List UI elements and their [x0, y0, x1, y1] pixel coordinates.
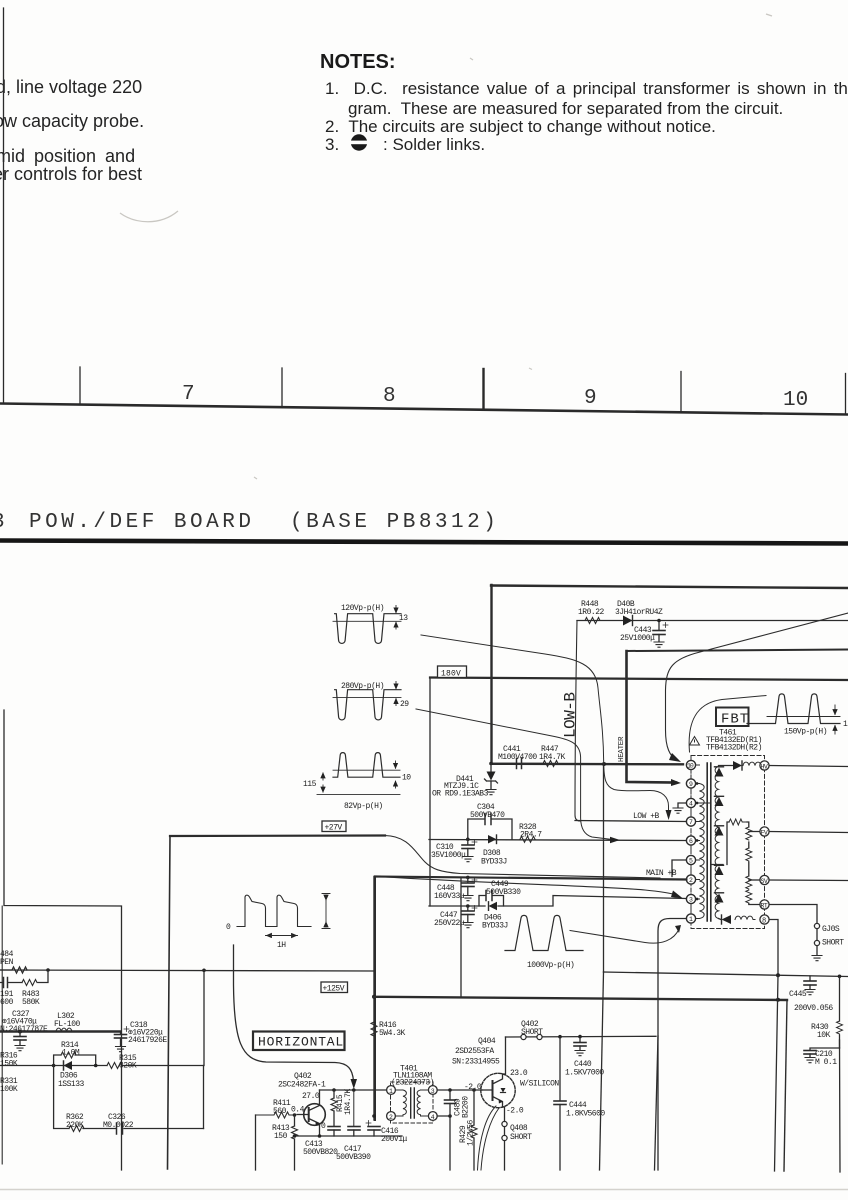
transformer T461 label: [706, 729, 762, 753]
svg-text:LOW-B: LOW-B: [562, 692, 580, 738]
svg-text:PEN: PEN: [0, 958, 14, 967]
wire: R411 left drop: [255, 1115, 257, 1170]
svg-text:1/2W56: 1/2W56: [467, 1119, 476, 1146]
wire: x778 drop: [775, 976, 779, 1172]
svg-text:2: 2: [389, 1114, 393, 1121]
waveform 82Vp-p: [303, 753, 411, 811]
junction collector: [332, 1088, 336, 1092]
svg-text:Q408: Q408: [510, 1124, 528, 1133]
svg-text:HEATER: HEATER: [618, 736, 626, 762]
resistor R362: [66, 1113, 84, 1132]
inductor L302: [54, 1012, 81, 1032]
svg-text:SV: SV: [761, 878, 768, 885]
svg-text:115: 115: [303, 780, 317, 789]
jumper GJ0S SHORT: [814, 923, 844, 955]
ground (C318): [116, 1047, 126, 1052]
wire: RT out to jumper: [769, 905, 817, 924]
ground (D441): [486, 790, 496, 795]
wire: rail right drop x787: [784, 1000, 787, 1171]
node +27V sweep curve: [170, 834, 385, 837]
transformer T461 primary winding: [696, 765, 705, 919]
svg-text:3: 3: [689, 897, 693, 904]
wire: vertical x204 lower: [203, 1066, 205, 1129]
capacitor C413: [303, 1127, 340, 1158]
node +125V label: [321, 982, 348, 994]
page left border line: [3, 8, 5, 403]
node SV terminal: [760, 875, 769, 885]
capacitor C327: [0, 1010, 48, 1045]
node terminal 8: [760, 915, 769, 926]
wire: collector row: [320, 1089, 387, 1091]
wire: left frame corner: [4, 710, 122, 1170]
wire: corner box to heater feed: [627, 650, 848, 652]
svg-text:5W4.3K: 5W4.3K: [379, 1029, 406, 1038]
resistor R429: [459, 1090, 477, 1170]
ground (C443): [654, 642, 664, 647]
svg-text:9: 9: [584, 387, 597, 410]
svg-text:SHORT: SHORT: [510, 1133, 532, 1142]
junction C310 node: [466, 838, 470, 842]
svg-text:+27V: +27V: [325, 824, 343, 833]
wire: jumper row Q402 SHORT: [506, 1035, 657, 1038]
svg-text:1.8KV5600: 1.8KV5600: [566, 1110, 605, 1119]
jumper Q408 SHORT: [502, 1121, 532, 1170]
svg-text:C445: C445: [789, 990, 807, 999]
junction C447: [466, 904, 470, 908]
svg-text:7: 7: [689, 819, 693, 826]
wire: top box top edge: [491, 586, 848, 589]
svg-text:8: 8: [762, 918, 766, 926]
wire: T401 pin4 out: [437, 1116, 450, 1170]
wire: Q404 collector up: [503, 1037, 506, 1074]
junction base node: [448, 1088, 452, 1092]
svg-text:RT: RT: [761, 903, 768, 910]
svg-text:35V1000μ: 35V1000μ: [431, 851, 466, 860]
svg-text:820K: 820K: [119, 1062, 137, 1071]
capacitor C210: [804, 1048, 840, 1067]
capacitor C304 bypass loop: [468, 803, 512, 839]
svg-text:3JH41orRU4Z: 3JH41orRU4Z: [615, 608, 663, 617]
svg-text:BYD33J: BYD33J: [482, 922, 508, 931]
capacitor C440: [565, 1037, 604, 1078]
svg-text:(23224373): (23224373): [391, 1079, 434, 1088]
svg-text:3: 3: [431, 1088, 435, 1095]
svg-text:25V1000μ: 25V1000μ: [620, 634, 655, 643]
svg-text:600: 600: [0, 998, 14, 1007]
svg-text:250V22μ: 250V22μ: [434, 919, 465, 928]
ground (C210): [805, 1058, 815, 1063]
node pin1 pointer curve: [570, 929, 679, 943]
ground (C445): [805, 990, 815, 995]
wire: SV connect: [749, 879, 760, 881]
svg-text:W/SILICON: W/SILICON: [520, 1080, 559, 1089]
node arrow into pin 9: [671, 779, 681, 786]
inductor HV branch coil: [743, 762, 761, 765]
svg-text:0: 0: [321, 1122, 326, 1131]
transistor Q404: [452, 1037, 559, 1116]
wire: +125V rail: [374, 997, 787, 1000]
svg-text:10: 10: [783, 389, 808, 412]
resistor R316 label: [0, 1052, 18, 1069]
node pointer from waveform 280Vp-p: [416, 709, 610, 839]
node pointer from waveform 120Vp-p: [421, 635, 669, 812]
svg-text:200V0.056: 200V0.056: [794, 1004, 833, 1013]
pin numbers: [687, 763, 694, 924]
wire: pin 8 to bottom bus: [769, 920, 778, 976]
svg-text:500VB390: 500VB390: [336, 1153, 371, 1162]
svg-text:100K: 100K: [0, 1085, 18, 1094]
wire: vertical from heater junction to bottom: [603, 764, 605, 972]
junction primary stubs: [696, 803, 711, 899]
svg-text:+125V: +125V: [323, 985, 345, 994]
wire: heavy drop to pin 9: [627, 651, 677, 783]
svg-text:150Vp-p(H): 150Vp-p(H): [784, 728, 827, 737]
svg-text:N:24617787E: N:24617787E: [0, 1025, 48, 1034]
svg-text:27.0: 27.0: [302, 1092, 320, 1101]
node FV terminal: [760, 827, 769, 837]
junction C448: [466, 876, 470, 880]
wire: 180V rail left drop: [429, 678, 431, 907]
capacitor C489: [445, 1090, 471, 1118]
junction heater line: [602, 762, 606, 766]
wire: emitter row: [295, 1135, 403, 1137]
svg-text:8: 8: [383, 385, 396, 408]
resistor FV branch: [729, 819, 747, 825]
wire: 180V rail: [430, 678, 848, 681]
wire: pin 4 ground stub: [678, 803, 686, 808]
wire: lower box top edge: [374, 877, 376, 1121]
junction rail x778: [776, 998, 780, 1002]
svg-text:HORIZONTAL: HORIZONTAL: [258, 1035, 344, 1050]
wire: long sweep from top right to pin 10: [666, 613, 848, 760]
svg-text:B2200: B2200: [462, 1096, 471, 1118]
note 3: [325, 135, 339, 155]
wire: T401 to Q404 base: [437, 1089, 482, 1091]
transformer T461 core: [707, 763, 711, 921]
svg-text:3: 3: [0, 511, 5, 534]
left border bottom segment: [1, 906, 3, 1164]
wire: C327 rail: [0, 1030, 121, 1033]
wire: R315 row: [0, 1065, 204, 1067]
resistor R415: [331, 1088, 353, 1126]
svg-text:1.5KV7000: 1.5KV7000: [565, 1069, 604, 1078]
wire: right edge vertical: [839, 1040, 842, 1172]
capacitor C417: [336, 1090, 371, 1162]
FBT label box: [716, 708, 749, 728]
waveform 120Vp-p: [333, 604, 408, 643]
svg-text:10K: 10K: [817, 1031, 831, 1040]
diode secondary D4: [715, 866, 724, 875]
resistor R413: [272, 1115, 298, 1170]
resistor R447: [539, 745, 604, 767]
svg-text:82Vp-p(H): 82Vp-p(H): [344, 802, 383, 811]
svg-text:150: 150: [274, 1132, 288, 1141]
diode D441 zener: [432, 764, 498, 799]
junction bus dots: [46, 968, 50, 972]
ground (C327): [15, 1046, 25, 1051]
inductor pin8 coil: [735, 916, 755, 919]
ruler line: [0, 404, 848, 415]
ruler tick 4: [680, 372, 682, 412]
wire: vertical x234 sweep to T401 arrow: [234, 945, 354, 1081]
svg-text:6: 6: [689, 838, 693, 845]
waveform 1H ref: [226, 894, 330, 951]
waveform 150Vp-p: [747, 694, 848, 737]
diode D406: [482, 902, 508, 931]
svg-text:M0.0022: M0.0022: [103, 1121, 134, 1130]
junction emitter: [293, 1134, 297, 1138]
node arrow into pin 10: [669, 753, 681, 762]
svg-text:FL-100: FL-100: [54, 1020, 81, 1029]
svg-text:4: 4: [689, 801, 693, 808]
svg-text:560: 560: [273, 1107, 287, 1116]
capacitor C441: [489, 745, 543, 769]
NOTES heading: [320, 51, 396, 74]
svg-text:POW./DEF BOARD: POW./DEF BOARD: [29, 511, 254, 534]
svg-text:280Vp-p(H): 280Vp-p(H): [341, 682, 384, 691]
ground (GJ0S): [812, 956, 822, 961]
svg-text:5: 5: [689, 858, 693, 865]
wire: +125V feeder vertical: [373, 877, 375, 1121]
svg-text:150K: 150K: [0, 1060, 18, 1069]
svg-text:SHORT: SHORT: [822, 939, 844, 948]
svg-text:1SS133: 1SS133: [58, 1080, 85, 1089]
svg-text:1.0M: 1.0M: [62, 1049, 80, 1058]
svg-text:120Vp-p(H): 120Vp-p(H): [341, 604, 384, 613]
svg-text:500VB820: 500VB820: [303, 1148, 338, 1157]
junction pin4: [448, 1114, 452, 1118]
wire: vertical x204: [203, 970, 205, 1065]
junction +125V: [372, 995, 376, 999]
svg-text:M100V4700: M100V4700: [498, 753, 537, 762]
ground (C447): [463, 923, 473, 928]
junction C443: [657, 619, 661, 623]
ruler tick 3: [482, 369, 484, 410]
ground (pin 4): [673, 808, 683, 813]
wire: FV out: [769, 832, 848, 833]
svg-text:M 0.1: M 0.1: [815, 1058, 837, 1067]
node RT terminal: [760, 900, 769, 910]
diode secondary D2: [715, 797, 724, 806]
wire: lower-left bus y970: [0, 970, 374, 971]
node emitter bypass curves: [478, 1106, 497, 1170]
svg-text:SHORT: SHORT: [521, 1028, 543, 1037]
svg-text:7: 7: [182, 383, 195, 406]
capacitor C447: [434, 906, 477, 929]
left column body text: [0, 77, 142, 98]
wire: FV connect: [749, 831, 760, 833]
svg-text:1: 1: [389, 1088, 393, 1095]
svg-text:29: 29: [400, 700, 409, 709]
resistor R484 open: [0, 950, 27, 973]
wire: pin8 branch diode: [719, 915, 732, 924]
svg-text:23.0: 23.0: [510, 1069, 528, 1078]
svg-text:580K: 580K: [22, 998, 40, 1007]
ground (C440): [575, 1051, 585, 1056]
waveform 280Vp-p: [333, 682, 409, 720]
svg-text:13: 13: [399, 614, 408, 623]
junction C440/C444: [558, 1035, 562, 1039]
transistor Q402: [278, 1072, 326, 1136]
svg-text:1: 1: [689, 916, 693, 923]
resistor R315: [107, 1054, 137, 1071]
capacitor C448: [434, 878, 477, 902]
heavy divider line: [0, 541, 848, 544]
wire: SV out: [769, 879, 848, 882]
diode D40B: [615, 600, 663, 626]
note 1 line 2: [348, 99, 783, 119]
svg-text:HV: HV: [761, 764, 768, 771]
svg-text:200V1μ: 200V1μ: [381, 1135, 408, 1144]
svg-text:-2.0: -2.0: [464, 1083, 482, 1092]
wire: vertical x461: [460, 877, 462, 997]
svg-text:SN:23314955: SN:23314955: [452, 1058, 500, 1067]
svg-text:2SD2553FA: 2SD2553FA: [455, 1047, 494, 1056]
ground (C448): [463, 896, 473, 901]
HORIZONTAL label box: [253, 1032, 345, 1051]
junction right bus: [776, 973, 780, 977]
node pin3 pointer curve: [378, 877, 677, 896]
wire: +27V corner drop: [168, 836, 171, 1169]
node flow arrow on pin6 wire: [610, 837, 620, 844]
wire: FV tap branch: [712, 822, 729, 865]
capacitor C310: [431, 839, 477, 860]
transformer T401: [387, 1065, 438, 1124]
svg-text:GJ0S: GJ0S: [822, 925, 840, 934]
diode secondary D1: [715, 768, 724, 777]
capacitor C416: [366, 1121, 408, 1145]
svg-text:FV: FV: [761, 830, 768, 837]
svg-text:180V: 180V: [441, 670, 461, 679]
svg-text:1R4.7K: 1R4.7K: [344, 1088, 353, 1115]
svg-text:2: 2: [689, 877, 693, 884]
note 2: [325, 117, 716, 137]
ruler tick 1: [79, 367, 81, 405]
ruler tick 5: [845, 374, 847, 414]
note 1 line 1: [325, 79, 848, 99]
junction C327: [18, 1030, 22, 1034]
transformer T461 pin circles column: [686, 760, 695, 923]
svg-text:0.4: 0.4: [291, 1106, 305, 1115]
resistor FV chain R3: [746, 876, 752, 889]
jumper Q402 SHORT: [521, 1020, 543, 1040]
diode D306: [58, 1061, 85, 1089]
svg-text:(BASE PB8312): (BASE PB8312): [290, 511, 499, 534]
node HV terminal: [760, 761, 769, 771]
resistor FV chain R1: [746, 827, 752, 840]
svg-text:1: 1: [843, 720, 848, 729]
svg-text:BYD33J: BYD33J: [481, 858, 507, 867]
wire: pin 1 to lower box: [658, 919, 686, 1171]
wire: LOW +B to pin 7: [575, 821, 686, 822]
resistor R328: [519, 823, 542, 842]
wire: x602 bottom: [600, 972, 604, 1170]
svg-text:500VB470: 500VB470: [470, 811, 505, 820]
svg-text:1R4.7K: 1R4.7K: [539, 753, 566, 762]
svg-text:2R4.7: 2R4.7: [520, 831, 542, 840]
resistor R448: [577, 600, 608, 624]
svg-text:10: 10: [402, 774, 411, 783]
svg-text:-2.0: -2.0: [506, 1107, 524, 1116]
svg-text:1000Vp-p(H): 1000Vp-p(H): [527, 961, 574, 970]
svg-text:160V33μ: 160V33μ: [434, 892, 465, 901]
capacitor C491 + resistor R483 branch: [0, 970, 48, 1007]
wire: Q404 emitter down: [503, 1107, 505, 1122]
diode secondary D3: [715, 827, 724, 836]
wire: top box left edge: [490, 585, 492, 764]
node LOW-B vertical rail: [575, 621, 580, 822]
wire: FV chain vertical: [747, 822, 760, 905]
svg-text:TFB4132DH(R2): TFB4132DH(R2): [706, 744, 762, 753]
svg-text:2SC2482FA-1: 2SC2482FA-1: [278, 1081, 326, 1090]
wire: heater line to pin 10: [491, 763, 683, 766]
junction base: [293, 1113, 297, 1117]
wire: HV branch diode: [719, 761, 743, 770]
svg-text:24617926E: 24617926E: [128, 1036, 167, 1045]
wire: R362/C326 row: [54, 1066, 204, 1129]
node arrow onto collector wire: [351, 1079, 358, 1089]
node warning triangle: [690, 737, 700, 746]
wire: pin 6 line from R328: [429, 840, 686, 841]
resistor FV chain R2: [746, 848, 752, 861]
svg-text:FBT: FBT: [721, 712, 749, 728]
wire: pin 5 stub: [672, 860, 686, 877]
node 180V: [438, 666, 467, 679]
svg-text:4: 4: [431, 1114, 435, 1121]
svg-text:1H: 1H: [277, 941, 286, 950]
svg-text:OR RD9.1E3AB3: OR RD9.1E3AB3: [432, 790, 489, 799]
junction D306 loop: [52, 1064, 56, 1068]
resistor R314 + diode D306 loop: [54, 1041, 96, 1066]
ground (C310): [463, 857, 473, 862]
node +27V label: [322, 821, 346, 833]
wire: R448 supply line: [577, 620, 848, 622]
resistor FV chain R4: [746, 890, 752, 903]
solder link symbol (note 3): [349, 134, 369, 150]
svg-text:MAIN +B: MAIN +B: [646, 869, 677, 878]
resistor R411: [256, 1099, 295, 1118]
diode D308: [481, 835, 507, 867]
capacitor C444: [554, 1037, 605, 1170]
ruler tick 2: [281, 368, 283, 407]
capacitor C443: [620, 621, 668, 644]
wire: lower-right bus y972: [604, 972, 848, 977]
transformer T461 secondary winding: [715, 767, 718, 919]
capacitor C318: [115, 1021, 168, 1046]
svg-text:9: 9: [689, 781, 693, 788]
resistor R331 label: [0, 1077, 18, 1094]
svg-text:LOW +B: LOW +B: [633, 812, 660, 821]
node FBT callout curve: [689, 696, 766, 753]
junction T401 pin2: [372, 1114, 376, 1118]
svg-text:220K: 220K: [66, 1121, 84, 1130]
wire: MAIN +B to pin 2: [375, 877, 686, 880]
capacitor C445: [789, 976, 833, 1013]
transformer T461 FBT dashed box: [691, 756, 765, 929]
diode secondary D5: [715, 894, 724, 903]
svg-text:0: 0: [226, 923, 231, 932]
svg-text:500VB330: 500VB330: [486, 888, 521, 897]
resistor R430: [811, 976, 843, 1048]
waveform 1000Vp-p: [505, 915, 583, 970]
wire: C447/D406 row: [429, 896, 686, 907]
resistor R416: [371, 1021, 406, 1038]
capacitor C326: [103, 1113, 134, 1134]
svg-text:Q404: Q404: [478, 1037, 496, 1046]
wire: HV out: [769, 766, 848, 767]
svg-text:1R0.22: 1R0.22: [578, 608, 605, 617]
wire: x656 bottom: [655, 1036, 659, 1170]
